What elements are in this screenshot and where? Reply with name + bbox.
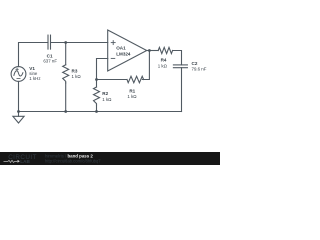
svg-text:R3: R3 bbox=[72, 68, 78, 73]
op-amp OA1 bbox=[108, 30, 147, 71]
node op-amp output bbox=[148, 49, 151, 52]
label OA1 bbox=[116, 46, 131, 57]
wire C1 to op-amp + input bbox=[51, 42, 108, 44]
resistor R4 bbox=[158, 47, 181, 65]
ground bbox=[13, 112, 24, 124]
svg-text:1 kHz: 1 kHz bbox=[29, 76, 40, 81]
label R1 bbox=[127, 88, 137, 99]
node feedback / R2 bbox=[95, 78, 98, 81]
wire op-amp output bbox=[147, 50, 159, 52]
svg-text:1 kΩ: 1 kΩ bbox=[102, 97, 112, 102]
label C1 bbox=[43, 54, 57, 64]
label R4 bbox=[158, 57, 168, 68]
voltage source V1 bbox=[11, 67, 26, 82]
svg-text:http://circuitlab.com/c/8hfubq: http://circuitlab.com/c/8hfubq7 bbox=[45, 158, 101, 163]
wire V1 to bottom rail bbox=[18, 81, 20, 111]
svg-text:1 kΩ: 1 kΩ bbox=[158, 64, 168, 69]
label R2 bbox=[102, 91, 112, 102]
svg-text:LM324: LM324 bbox=[116, 52, 131, 57]
svg-text:R4: R4 bbox=[161, 57, 167, 62]
wire bottom rail bbox=[19, 111, 182, 113]
resistor R2 bbox=[94, 80, 100, 112]
resistor R1 (feedback) bbox=[97, 51, 150, 83]
svg-text:637 nF: 637 nF bbox=[43, 59, 57, 64]
svg-text:LAB: LAB bbox=[20, 159, 30, 164]
svg-text:1 kΩ: 1 kΩ bbox=[127, 94, 137, 99]
svg-text:79.6 nF: 79.6 nF bbox=[192, 66, 207, 71]
watermark bar bbox=[0, 152, 220, 165]
node R3 bottom bbox=[64, 110, 67, 113]
node R2 bottom bbox=[95, 110, 98, 113]
label C2 bbox=[192, 61, 207, 71]
resistor R3 bbox=[63, 43, 69, 112]
wire top-left rail to C1 bbox=[19, 43, 49, 67]
capacitor C1 bbox=[48, 35, 51, 49]
label V1 bbox=[29, 66, 40, 81]
svg-text:R2: R2 bbox=[102, 91, 108, 96]
svg-text:1 kΩ: 1 kΩ bbox=[72, 74, 82, 79]
svg-text:OA1: OA1 bbox=[116, 46, 126, 51]
node C1/R3 junction bbox=[64, 41, 67, 44]
wire op-amp minus input bbox=[97, 59, 108, 80]
capacitor C2 bbox=[173, 65, 187, 112]
watermark text bbox=[45, 154, 101, 164]
circuitlab logo bbox=[4, 154, 37, 164]
label R3 bbox=[72, 68, 82, 79]
node ground rail left bbox=[17, 110, 20, 113]
svg-text:R1: R1 bbox=[129, 88, 135, 93]
